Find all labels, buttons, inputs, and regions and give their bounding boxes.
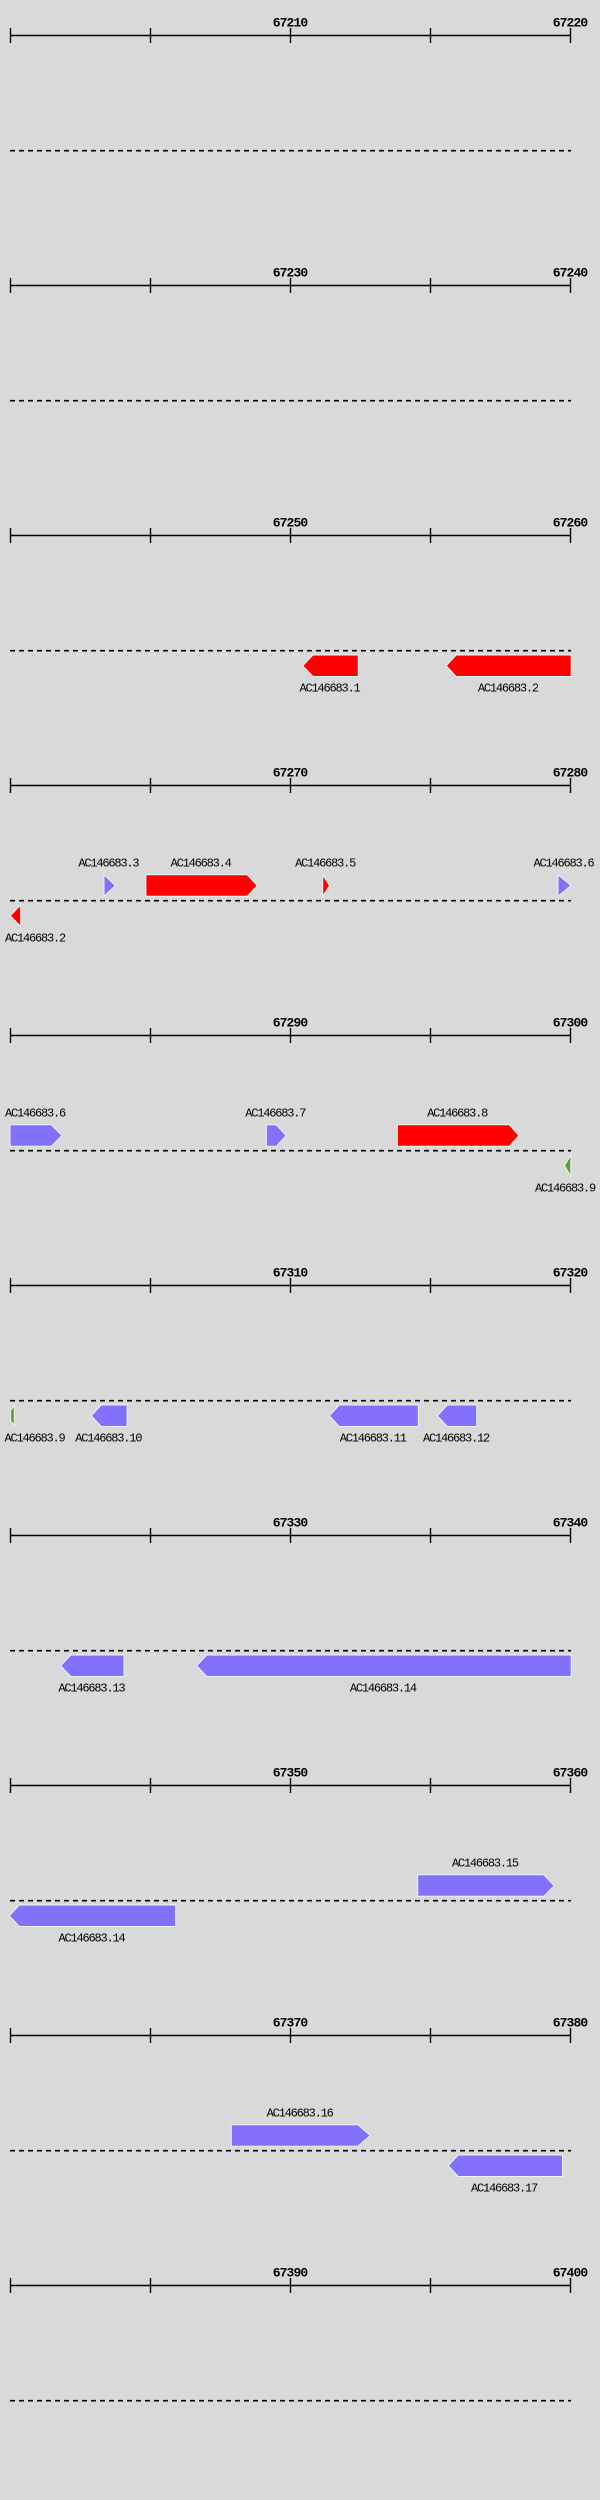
svg-text:67210: 67210 xyxy=(273,16,309,31)
svg-text:67280: 67280 xyxy=(553,766,589,781)
panel 5 ruler line xyxy=(10,1035,571,1037)
panel 5 ruler tick 3 xyxy=(290,1028,292,1043)
feature AC146683.6 arrow start (violet, forward) xyxy=(558,875,571,897)
panel 9 ruler line xyxy=(10,2035,571,2037)
panel 2 ruler tick 2 xyxy=(150,278,152,293)
panel 3 ruler line xyxy=(10,535,571,537)
panel 6 ruler tick 4 xyxy=(430,1278,432,1293)
svg-text:AC146683.10: AC146683.10 xyxy=(75,1432,142,1446)
panel 6 ruler tick 1 xyxy=(10,1278,12,1293)
svg-text:AC146683.9: AC146683.9 xyxy=(535,1182,596,1196)
panel 4 ruler tick 2 xyxy=(150,778,152,793)
svg-text:AC146683.2: AC146683.2 xyxy=(5,932,66,946)
svg-text:67300: 67300 xyxy=(553,1016,589,1031)
svg-text:67290: 67290 xyxy=(273,1016,309,1031)
feature AC146683.1 arrow (red, reverse) xyxy=(303,655,359,677)
svg-text:67240: 67240 xyxy=(553,266,589,281)
panel 10 ruler tick 3 xyxy=(290,2278,292,2293)
panel 3 ruler tick 5 xyxy=(570,528,572,543)
panel 9 ruler tick 3 xyxy=(290,2028,292,2043)
panel 7 ruler tick 2 xyxy=(150,1528,152,1543)
panel 1 ruler tick 3 xyxy=(290,28,292,43)
panel 7 dashed baseline xyxy=(10,1650,571,1652)
panel 9 ruler tick 5 xyxy=(570,2028,572,2043)
svg-text:67270: 67270 xyxy=(273,766,309,781)
panel 3 ruler tick 3 xyxy=(290,528,292,543)
panel 10 ruler tick 2 xyxy=(150,2278,152,2293)
svg-text:AC146683.6: AC146683.6 xyxy=(5,1107,66,1121)
panel 7 ruler tick 5 xyxy=(570,1528,572,1543)
svg-text:AC146683.1: AC146683.1 xyxy=(300,682,361,696)
svg-text:67350: 67350 xyxy=(273,1766,309,1781)
panel 2 ruler line xyxy=(10,285,571,287)
panel 9 dashed baseline xyxy=(10,2150,571,2152)
svg-text:67370: 67370 xyxy=(273,2016,309,2031)
panel 8 ruler tick 3 xyxy=(290,1778,292,1793)
feature AC146683.2 arrow tip continued (red, reverse) xyxy=(10,905,21,927)
panel 4 ruler tick 1 xyxy=(10,778,12,793)
svg-text:AC146683.2: AC146683.2 xyxy=(478,682,539,696)
panel 10 ruler tick 1 xyxy=(10,2278,12,2293)
feature AC146683.7 arrow (violet, forward) xyxy=(266,1125,286,1147)
svg-text:AC146683.9: AC146683.9 xyxy=(5,1432,66,1446)
svg-text:AC146683.14: AC146683.14 xyxy=(59,1932,126,1946)
panel 7 ruler tick 1 xyxy=(10,1528,12,1543)
panel 8 ruler line xyxy=(10,1785,571,1787)
panel 4 ruler tick 3 xyxy=(290,778,292,793)
feature AC146683.16 arrow (violet, forward) xyxy=(231,2125,370,2147)
panel 6 dashed baseline xyxy=(10,1400,571,1402)
panel 5 ruler tick 2 xyxy=(150,1028,152,1043)
panel 10 dashed baseline xyxy=(10,2400,571,2402)
panel 8 ruler tick 1 xyxy=(10,1778,12,1793)
svg-text:67340: 67340 xyxy=(553,1516,589,1531)
panel 10 ruler line xyxy=(10,2285,571,2287)
panel 3 ruler tick 4 xyxy=(430,528,432,543)
svg-text:67360: 67360 xyxy=(553,1766,589,1781)
panel 2 ruler tick 3 xyxy=(290,278,292,293)
panel 1 ruler tick 2 xyxy=(150,28,152,43)
panel 10 ruler tick 4 xyxy=(430,2278,432,2293)
panel 6 ruler tick 3 xyxy=(290,1278,292,1293)
svg-text:67330: 67330 xyxy=(273,1516,309,1531)
panel 9 ruler tick 2 xyxy=(150,2028,152,2043)
panel 1 ruler tick 1 xyxy=(10,28,12,43)
panel 3 ruler tick 1 xyxy=(10,528,12,543)
feature AC146683.11 arrow (violet, reverse) xyxy=(329,1405,418,1427)
svg-text:67400: 67400 xyxy=(553,2266,589,2281)
svg-text:AC146683.16: AC146683.16 xyxy=(267,2107,334,2121)
feature AC146683.4 arrow (red, forward) xyxy=(146,875,257,897)
panel 2 ruler tick 4 xyxy=(430,278,432,293)
svg-text:AC146683.11: AC146683.11 xyxy=(340,1432,407,1446)
svg-text:67390: 67390 xyxy=(273,2266,309,2281)
svg-text:AC146683.12: AC146683.12 xyxy=(423,1432,490,1446)
panel 4 dashed baseline xyxy=(10,900,571,902)
panel 7 ruler tick 3 xyxy=(290,1528,292,1543)
panel 1 ruler tick 5 xyxy=(570,28,572,43)
feature AC146683.8 arrow (red, forward) xyxy=(397,1125,519,1147)
svg-text:AC146683.8: AC146683.8 xyxy=(427,1107,488,1121)
svg-text:67310: 67310 xyxy=(273,1266,309,1281)
svg-text:67260: 67260 xyxy=(553,516,589,531)
svg-text:AC146683.14: AC146683.14 xyxy=(350,1682,417,1696)
panel 5 ruler tick 5 xyxy=(570,1028,572,1043)
feature AC146683.3 arrow (violet, forward) xyxy=(104,875,115,897)
panel 7 ruler line xyxy=(10,1535,571,1537)
panel 1 ruler line xyxy=(10,35,571,37)
panel 8 ruler tick 2 xyxy=(150,1778,152,1793)
panel 5 ruler tick 1 xyxy=(10,1028,12,1043)
svg-text:AC146683.15: AC146683.15 xyxy=(452,1857,519,1871)
feature AC146683.12 arrow (violet, reverse) xyxy=(437,1405,476,1427)
svg-text:AC146683.4: AC146683.4 xyxy=(171,857,232,871)
svg-text:67230: 67230 xyxy=(273,266,309,281)
feature AC146683.5 arrow (red, forward) xyxy=(323,875,330,897)
svg-text:AC146683.5: AC146683.5 xyxy=(295,857,356,871)
svg-text:67220: 67220 xyxy=(553,16,589,31)
panel 9 ruler tick 4 xyxy=(430,2028,432,2043)
panel 3 ruler tick 2 xyxy=(150,528,152,543)
feature AC146683.6 arrow continued (violet, forward) xyxy=(10,1125,62,1147)
feature AC146683.14 arrow (violet, reverse) xyxy=(197,1655,572,1677)
panel 8 ruler tick 5 xyxy=(570,1778,572,1793)
feature AC146683.10 arrow (violet, reverse) xyxy=(91,1405,127,1427)
panel 10 ruler tick 5 xyxy=(570,2278,572,2293)
panel 2 ruler tick 1 xyxy=(10,278,12,293)
panel 7 ruler tick 4 xyxy=(430,1528,432,1543)
panel 2 dashed baseline xyxy=(10,400,571,402)
panel 6 ruler tick 2 xyxy=(150,1278,152,1293)
panel 6 ruler line xyxy=(10,1285,571,1287)
panel 2 ruler tick 5 xyxy=(570,278,572,293)
panel 9 ruler tick 1 xyxy=(10,2028,12,2043)
svg-text:AC146683.7: AC146683.7 xyxy=(245,1107,306,1121)
panel 4 ruler line xyxy=(10,785,571,787)
panel 5 dashed baseline xyxy=(10,1150,571,1152)
svg-text:67320: 67320 xyxy=(553,1266,589,1281)
svg-text:AC146683.13: AC146683.13 xyxy=(58,1682,125,1696)
panel 4 ruler tick 4 xyxy=(430,778,432,793)
panel 8 dashed baseline xyxy=(10,1900,571,1902)
svg-text:AC146683.6: AC146683.6 xyxy=(534,857,595,871)
panel 6 ruler tick 5 xyxy=(570,1278,572,1293)
panel 3 dashed baseline xyxy=(10,650,571,652)
svg-text:67250: 67250 xyxy=(273,516,309,531)
panel 4 ruler tick 5 xyxy=(570,778,572,793)
feature AC146683.9 arrow continued (green, reverse) xyxy=(11,1406,15,1426)
feature AC146683.9 arrow start (green, reverse) xyxy=(565,1155,571,1176)
feature AC146683.14 arrow continued (violet, reverse) xyxy=(9,1905,175,1927)
feature AC146683.17 arrow (violet, reverse) xyxy=(448,2155,562,2177)
svg-text:AC146683.17: AC146683.17 xyxy=(471,2182,538,2196)
feature AC146683.15 arrow (violet, forward) xyxy=(418,1875,555,1897)
panel 8 ruler tick 4 xyxy=(430,1778,432,1793)
panel 1 ruler tick 4 xyxy=(430,28,432,43)
svg-text:67380: 67380 xyxy=(553,2016,589,2031)
panel 1 dashed baseline xyxy=(10,150,571,152)
panel 5 ruler tick 4 xyxy=(430,1028,432,1043)
svg-text:AC146683.3: AC146683.3 xyxy=(78,857,139,871)
feature AC146683.2 arrow (red, reverse) xyxy=(446,655,571,677)
feature AC146683.13 arrow (violet, reverse) xyxy=(61,1655,124,1677)
